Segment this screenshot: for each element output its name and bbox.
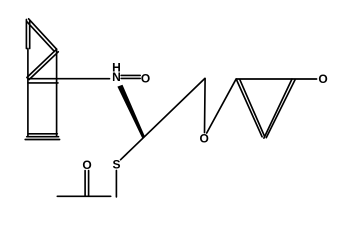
bond A=E double vertical right line xyxy=(29,21,31,49)
bond furan top edge and bond to right O xyxy=(236,78,316,80)
wedge bond N to stereocenter xyxy=(117,85,144,138)
bond ring left vertical xyxy=(27,49,29,137)
svg-text:O: O xyxy=(318,72,327,86)
bond S down vertical xyxy=(115,170,117,197)
bond A=E double vertical left line xyxy=(25,20,27,49)
svg-text:O: O xyxy=(141,71,150,85)
svg-text:S: S xyxy=(112,158,120,172)
bond A=B diagonal inner line xyxy=(27,22,54,52)
bond acetyl horizontal xyxy=(57,195,110,197)
bond S to chain apex (collinear through stereocenter) xyxy=(121,78,205,159)
bond furan left double inner xyxy=(240,79,265,136)
bond ring O to furan TL xyxy=(207,79,236,133)
bond acetyl C=O right line xyxy=(88,171,90,196)
svg-text:O: O xyxy=(82,158,91,172)
bond ring bottom line 3 xyxy=(25,139,59,141)
bond furan right double outer xyxy=(264,79,292,138)
bond A=B diagonal outer line xyxy=(29,19,57,49)
svg-text:O: O xyxy=(200,132,209,146)
wire xyxy=(25,19,316,197)
bond acetyl C=O left line xyxy=(84,171,86,196)
bond furan right double inner xyxy=(266,79,295,137)
bond N=O upper line xyxy=(121,74,140,76)
svg-text:N: N xyxy=(112,70,121,84)
bond B=C diagonal inner line xyxy=(29,52,58,80)
bond ring right vertical xyxy=(56,49,58,137)
bond apex to ring O xyxy=(204,78,207,132)
bond ring bottom line 1 xyxy=(28,133,57,135)
bond B=C diagonal outer line xyxy=(27,49,57,77)
bond furan left double outer xyxy=(236,79,262,137)
bond ring middle horizontal xyxy=(28,82,58,84)
bond N=O lower line xyxy=(121,77,140,79)
bond ring bottom line 2 xyxy=(27,136,59,138)
bond C to N xyxy=(28,78,109,80)
